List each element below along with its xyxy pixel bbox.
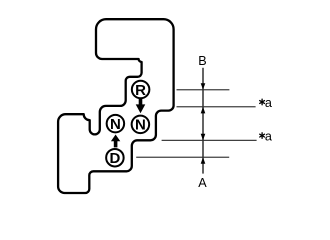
arrowhead down at L3: [201, 134, 206, 141]
thick arrow R to N: [136, 99, 146, 113]
svg-text:a: a: [265, 96, 272, 110]
svg-text:R: R: [135, 82, 146, 99]
arrowhead up at L2: [201, 107, 206, 114]
vertical dimension line: [202, 68, 204, 174]
thick arrow D to N: [111, 135, 120, 148]
svg-text:B: B: [198, 54, 206, 68]
position circle R: [132, 81, 150, 99]
svg-text:a: a: [265, 130, 272, 144]
arrowhead down at L1: [201, 83, 206, 89]
label *a lower : asterisk: [260, 133, 265, 139]
svg-text:D: D: [109, 150, 120, 167]
dim line L2: [177, 106, 256, 108]
svg-text:N: N: [135, 117, 146, 134]
dim line L4: [136, 156, 229, 158]
label *a upper : asterisk: [260, 99, 265, 105]
dim line L3: [162, 139, 257, 141]
arrowhead up at L4: [201, 157, 206, 164]
svg-text:A: A: [198, 176, 207, 190]
dim line L1: [177, 89, 230, 91]
position circle D: [106, 149, 124, 167]
position circle N (right): [132, 116, 150, 133]
position circle N (left): [107, 115, 125, 133]
shift gate outline: [58, 19, 174, 193]
svg-text:N: N: [110, 116, 121, 133]
